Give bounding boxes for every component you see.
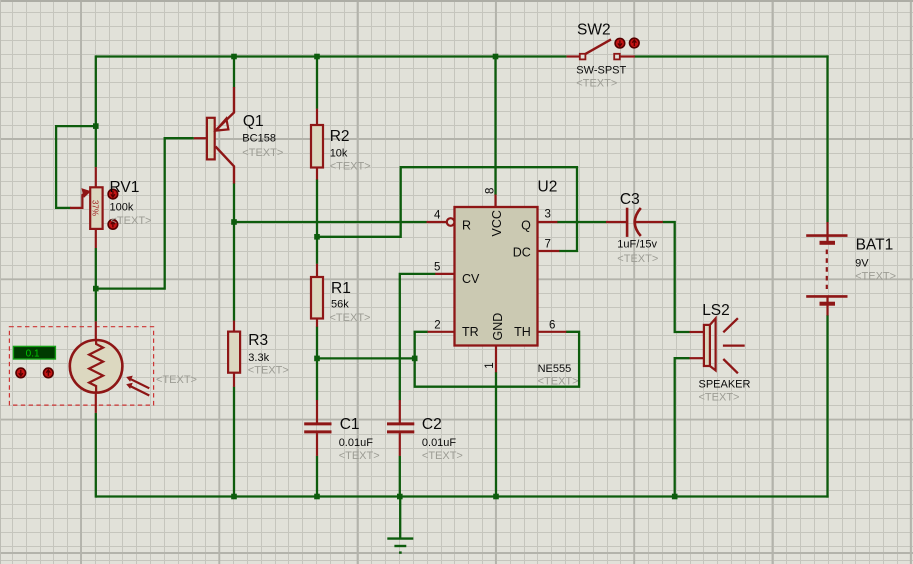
svg-text:<TEXT>: <TEXT>	[242, 147, 283, 159]
svg-text:BAT1: BAT1	[856, 237, 894, 254]
LDR pin marker 1	[16, 368, 26, 378]
svg-text:Q1: Q1	[243, 113, 264, 130]
wire CV(5) net to C2	[400, 274, 436, 400]
wire GND(1) to bottom rail	[495, 372, 497, 498]
svg-text:R2: R2	[330, 128, 350, 145]
capacitor C1	[304, 400, 331, 456]
svg-text:1uF/15v: 1uF/15v	[617, 239, 657, 251]
op-amp U2 NE555 body	[455, 207, 538, 346]
node LDR / base branch	[93, 286, 99, 292]
wire VCC(8) column	[494, 57, 496, 196]
wire TR(2) to TH(6) loop	[415, 332, 579, 387]
svg-text:7: 7	[545, 239, 551, 251]
svg-text:<TEXT>: <TEXT>	[617, 253, 658, 265]
node collector / R3 / pin4	[231, 219, 237, 225]
svg-text:6: 6	[549, 319, 555, 331]
svg-text:1: 1	[484, 362, 496, 368]
U2 pin 7 DC (discharge)	[513, 239, 560, 260]
svg-text:SPEAKER: SPEAKER	[699, 378, 751, 390]
resistor R2	[311, 109, 323, 180]
svg-text:SW2: SW2	[577, 22, 611, 39]
transistor Q1	[194, 87, 234, 184]
RV1 pin marker bottom	[108, 220, 118, 230]
speaker LS2	[690, 318, 745, 373]
ground	[387, 497, 413, 553]
potentiometer RV1	[70, 167, 103, 248]
svg-text:9V: 9V	[855, 258, 869, 270]
svg-text:<TEXT>: <TEXT>	[339, 450, 380, 462]
wire Q1 emitter to top rail	[233, 57, 235, 88]
U2 pin 6 TH (threshold)	[514, 319, 566, 339]
svg-text:3: 3	[545, 209, 551, 221]
U2 pin 5 CV (control)	[434, 261, 480, 286]
LDR enclosure dashed box	[9, 327, 153, 405]
wire speaker bottom to rail	[675, 358, 690, 497]
svg-text:R: R	[462, 219, 471, 233]
LDR light arrows	[126, 376, 149, 396]
wire top rail right	[635, 55, 829, 57]
wire battery column top	[826, 55, 828, 222]
svg-text:<TEXT>: <TEXT>	[330, 312, 371, 324]
svg-text:R3: R3	[248, 332, 268, 349]
svg-text:R1: R1	[331, 280, 351, 297]
svg-text:8: 8	[485, 188, 497, 194]
svg-text:<TEXT>: <TEXT>	[576, 77, 617, 89]
svg-text:TH: TH	[514, 325, 531, 339]
wire left column (RV1/LDR)	[95, 55, 97, 167]
svg-text:DC: DC	[513, 245, 531, 259]
wire R2 bottom to R1 top	[316, 179, 318, 264]
svg-text:U2: U2	[538, 179, 558, 196]
svg-text:5: 5	[434, 261, 440, 273]
node RV1 wiper tie	[93, 123, 99, 129]
capacitor C2	[387, 400, 414, 456]
wire R1 bottom to C1	[316, 327, 318, 401]
svg-text:LS2: LS2	[702, 302, 730, 319]
wire C1 to bottom rail	[316, 456, 318, 498]
resistor R1	[311, 264, 323, 327]
battery BAT1	[806, 222, 847, 316]
wire DC(7) net	[317, 167, 577, 251]
svg-text:100k: 100k	[110, 201, 134, 213]
node TR column	[412, 356, 418, 362]
U2 pin 8 VCC	[485, 188, 504, 237]
U2 pin 3 Q (output)	[521, 209, 557, 233]
wire pin4 row (collector to reset)	[234, 221, 427, 223]
wire top rail left	[96, 55, 567, 57]
wire Q1 collector to R3	[233, 183, 235, 321]
svg-text:TR: TR	[462, 325, 479, 339]
svg-text:<TEXT>: <TEXT>	[248, 365, 289, 377]
svg-text:<TEXT>: <TEXT>	[422, 450, 463, 462]
svg-text:C2: C2	[422, 416, 442, 433]
svg-text:10k: 10k	[330, 148, 348, 160]
U2 pin 4 R (reset, with bubble)	[427, 209, 472, 232]
svg-text:NE555: NE555	[538, 363, 572, 375]
svg-text:<TEXT>: <TEXT>	[855, 270, 896, 282]
svg-text:3.3k: 3.3k	[248, 352, 269, 364]
resistor R3	[228, 321, 240, 387]
svg-text:<TEXT>: <TEXT>	[699, 391, 740, 403]
svg-text:4: 4	[434, 209, 441, 221]
node R2 / R1 / DC net	[314, 234, 320, 240]
node top rail / pin8 column	[493, 54, 499, 60]
RV1 pin marker top	[108, 189, 118, 199]
wire RV1 wiper branch	[56, 126, 96, 208]
svg-text:GND: GND	[491, 313, 505, 341]
svg-text:37%: 37%	[91, 200, 100, 216]
SW2 actuator marker 2	[630, 38, 640, 48]
LDR photoresistor	[70, 321, 123, 413]
LDR value display 0.1	[13, 346, 55, 359]
svg-text:<TEXT>: <TEXT>	[111, 215, 152, 227]
node top rail / R2	[314, 54, 320, 60]
switch SW2 SW-SPST	[567, 39, 635, 59]
wire C2 to bottom rail	[399, 456, 401, 498]
node bottom rail / R3	[231, 494, 237, 500]
LDR pin marker 2	[44, 368, 54, 378]
wire R2 top	[316, 57, 318, 109]
node bottom rail / speaker	[672, 494, 678, 500]
wire C3 to speaker	[663, 222, 690, 332]
U2 pin 1 GND	[484, 313, 505, 373]
wire Q(3) output to C3	[557, 221, 607, 223]
svg-text:BC158: BC158	[242, 133, 276, 145]
svg-text:C3: C3	[620, 191, 640, 208]
svg-text:SW-SPST: SW-SPST	[576, 64, 626, 76]
svg-text:Q: Q	[521, 219, 531, 233]
wire R3 to bottom rail	[233, 387, 235, 498]
node top rail / Q1 emitter	[231, 54, 237, 60]
svg-text:2: 2	[434, 319, 440, 331]
node bottom rail / C1	[314, 494, 320, 500]
svg-text:C1: C1	[340, 416, 360, 433]
svg-text:56k: 56k	[331, 299, 349, 311]
svg-text:0.01uF: 0.01uF	[339, 437, 374, 449]
node bottom rail / pin1	[493, 494, 499, 500]
node bottom rail / ground	[397, 494, 403, 500]
node R1 / C1 / TR row	[314, 356, 320, 362]
svg-text:0.01uF: 0.01uF	[422, 437, 457, 449]
wire R1/C1 junction to TR row	[317, 357, 415, 359]
U2 pin 2 TR (trigger)	[428, 319, 479, 339]
wire bottom rail	[96, 495, 829, 497]
capacitor C3	[606, 208, 663, 237]
svg-text:<TEXT>: <TEXT>	[538, 375, 579, 387]
wire battery column bottom	[826, 315, 828, 498]
svg-text:0.1: 0.1	[26, 348, 40, 359]
svg-text:<TEXT>: <TEXT>	[156, 374, 197, 386]
SW2 actuator marker 1	[615, 38, 625, 48]
svg-text:CV: CV	[462, 272, 480, 286]
svg-text:RV1: RV1	[110, 179, 140, 196]
wire Q1 base branch	[96, 138, 194, 288]
svg-text:VCC: VCC	[490, 210, 504, 236]
svg-text:<TEXT>: <TEXT>	[330, 160, 371, 172]
